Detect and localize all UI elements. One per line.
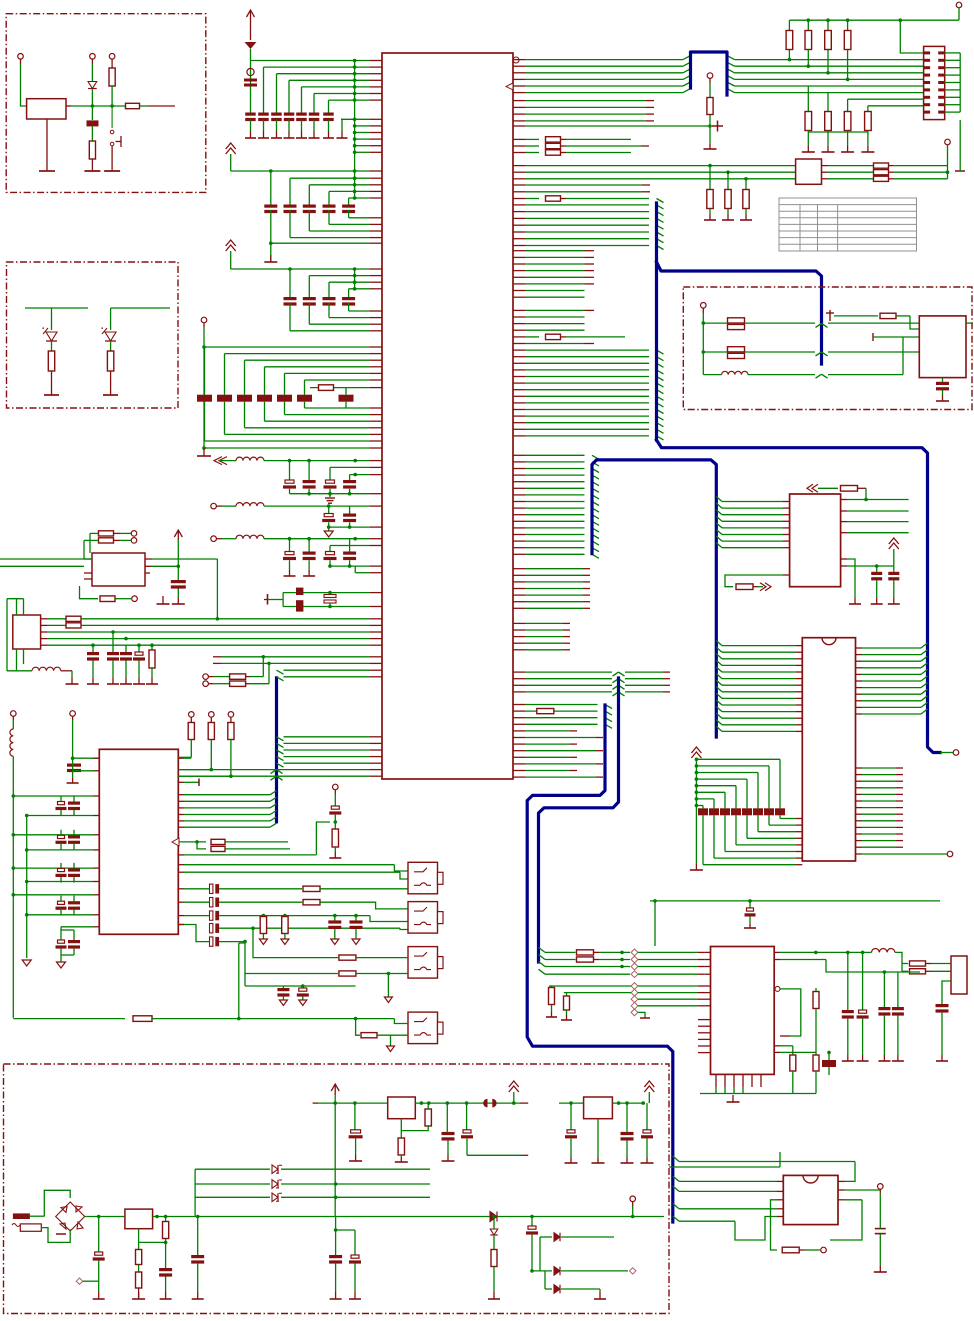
left connector J1 bbox=[13, 615, 41, 649]
box1 terminal 2 + zener bbox=[90, 54, 96, 60]
jack5 resistor wire bbox=[356, 1019, 360, 1036]
vertical feeds from audio rows bbox=[238, 943, 240, 1019]
decoupling caps row 3 bbox=[284, 297, 297, 300]
wire nest ladder2 bottom bbox=[348, 210, 350, 218]
box3 T wire 2 bbox=[872, 333, 874, 341]
power arrow and filter symbol at x=250 bbox=[247, 10, 255, 20]
shunt resistors x=263,285 bbox=[262, 916, 264, 917]
power rail y=269 bbox=[231, 268, 370, 270]
regulator U10 bbox=[559, 1102, 584, 1104]
big cap x=74 bbox=[67, 764, 81, 767]
wire nest bottom bbox=[285, 414, 371, 416]
box3 wire A with resistors bbox=[703, 322, 727, 324]
blue bus P6 bbox=[539, 678, 619, 962]
long bottom rail y=1018.6 bbox=[13, 1018, 125, 1020]
jack J4 bbox=[408, 947, 438, 979]
bundle R-L red tips bbox=[513, 622, 525, 624]
wire to connector pin1 bbox=[900, 20, 923, 53]
U3 feedback resistor top bbox=[807, 484, 818, 492]
cap left of U10 bbox=[570, 1103, 572, 1130]
box1 cap + resistor leg bbox=[91, 106, 93, 120]
blue bus P4 outer bbox=[657, 440, 941, 753]
box1 terminal 3 + resistor + switch bbox=[109, 54, 115, 60]
connector lower wire + cap bbox=[942, 981, 951, 1004]
box2 LED1 bbox=[25, 307, 88, 309]
module U2 (DC-DC) bbox=[92, 553, 145, 586]
small ground bbox=[329, 494, 331, 497]
box1 terminal 1 bbox=[18, 54, 24, 60]
blue bus P7 x=276.5 bbox=[275, 678, 278, 822]
U9 right components bbox=[415, 1102, 520, 1104]
headphone direct wires to jack1 bbox=[178, 864, 184, 866]
solid cap bottom right bbox=[822, 1060, 836, 1067]
ground bbox=[270, 255, 272, 262]
U8 right circle stub bbox=[775, 986, 780, 991]
box1 output wire bbox=[66, 105, 71, 107]
U5 audio pin wires bbox=[178, 888, 184, 890]
wire nest ladder3 top bbox=[349, 288, 370, 290]
U8 left lower stubs bbox=[698, 1019, 711, 1021]
trunk wire x=354.6 bbox=[354, 61, 356, 172]
wire group G2 bbox=[341, 118, 370, 120]
box3 IC bbox=[919, 316, 966, 378]
vertical resistor x=152 bbox=[151, 645, 153, 650]
U3 gnd bbox=[854, 572, 856, 598]
lower rails bbox=[283, 985, 355, 987]
audio wire 5 ground bbox=[219, 941, 245, 943]
U7 right wires bbox=[838, 1189, 845, 1191]
connector right wires bbox=[945, 52, 961, 54]
circle terminal above bbox=[630, 1196, 636, 1202]
cap + arrow x=178 bbox=[177, 540, 179, 580]
U8 right wires bbox=[774, 951, 780, 953]
blue bus bump P1 bbox=[691, 52, 728, 95]
IC U7 bbox=[783, 1175, 838, 1224]
row A bottom rail bbox=[289, 489, 291, 494]
codec IC U8 bbox=[711, 947, 775, 1075]
bundle R-B red tips bbox=[513, 100, 525, 102]
solid block row (bus caps) bbox=[197, 395, 212, 402]
jack J2 bbox=[408, 862, 438, 894]
U5 top cap wires bbox=[178, 757, 184, 759]
wires merging into P7 top from main IC bbox=[284, 669, 371, 671]
U8 right wire 2 bbox=[774, 959, 780, 961]
vertical coil x=13.3 bbox=[12, 720, 14, 729]
two tip wires y=185,192 bbox=[513, 184, 525, 186]
U8 left wires group1 bbox=[545, 951, 576, 953]
audio wire 1 to jack1 bbox=[219, 888, 302, 890]
wire nest ladder1 bbox=[314, 93, 370, 95]
terminal + inductor row B y=506.1 bbox=[211, 503, 217, 509]
box2 LED2 bbox=[111, 307, 170, 309]
P5 exit wires to U7 bbox=[673, 1156, 679, 1162]
connector bundle wires to main IC bbox=[41, 618, 47, 620]
wire rail y=243.2 bbox=[270, 210, 272, 262]
jack3 ground drop bbox=[387, 974, 389, 998]
bundle R-M chevron cross P6 bbox=[513, 671, 525, 673]
main IC U1 bbox=[382, 53, 513, 779]
U5 right pin wires upper bbox=[178, 756, 191, 758]
stacked resistor trio y=139-153 bbox=[513, 138, 525, 140]
terminal circles row y=713.5 bbox=[11, 711, 17, 717]
wire nest ladder3 top bbox=[329, 281, 370, 283]
wire nest bottom bbox=[245, 427, 371, 429]
bypass capacitor row C1-C7 bbox=[245, 113, 256, 116]
dashed box 1 (power input) bbox=[6, 14, 206, 193]
U6 left pin wires from P3 bbox=[716, 641, 722, 646]
cap leg x=532 bbox=[531, 1217, 533, 1227]
cap C row A3 nested bbox=[330, 466, 370, 468]
regulator U11 bbox=[125, 1209, 153, 1229]
tip wire y=343.5 bbox=[513, 343, 525, 345]
bundle R-I merge into P2 vertical bbox=[513, 349, 525, 351]
left-bottom IC U5 bbox=[99, 749, 178, 934]
terminal resistor pair x=205-245 bbox=[203, 674, 209, 680]
U4 right resistors bbox=[822, 165, 829, 167]
connector top rails bbox=[7, 598, 24, 600]
cap left of U9 bbox=[354, 1103, 356, 1130]
right connector J7 bbox=[951, 956, 967, 994]
U6 bottom right terminal wire bbox=[856, 853, 863, 855]
nested wire y=572.7 bbox=[355, 572, 370, 574]
U6 bypass bus-bar nest bbox=[691, 747, 701, 758]
wire nest ladder2 top bbox=[349, 197, 370, 199]
U10 bottom pin leg bbox=[597, 1119, 599, 1157]
top-right terminal and rail bbox=[956, 2, 962, 8]
header connector J6 bbox=[924, 46, 945, 119]
long wire y=126 with tap cluster bbox=[513, 125, 525, 127]
wires from box4 to U7 region bbox=[669, 1166, 780, 1168]
U5 left decoupling cap ladder bbox=[26, 816, 28, 959]
wire nest top bbox=[245, 359, 371, 361]
bridge rectifier bbox=[44, 1190, 70, 1216]
wire nest top bbox=[265, 366, 371, 368]
IC U6 DIP bbox=[802, 638, 855, 861]
wire x=72.6 down bbox=[72, 720, 74, 764]
resistor bottoms link bbox=[808, 131, 868, 133]
long left rail x=14 bbox=[12, 756, 14, 1018]
U8 bottom pins bbox=[715, 1074, 717, 1087]
zener wire rows bbox=[195, 1168, 270, 1170]
U7 bottom resistor loop bbox=[777, 1199, 783, 1201]
U10 right components bbox=[612, 1102, 645, 1104]
wire down to bundle bbox=[216, 559, 218, 619]
wire nest ladder2 top bbox=[309, 184, 370, 186]
wire nest ladder1 bbox=[329, 99, 371, 101]
caps on rail 986 bbox=[282, 986, 284, 988]
jack5 gnd bbox=[390, 1035, 392, 1046]
cap C row A1 bbox=[289, 461, 291, 480]
coupling cap stack x=210-219 bbox=[210, 884, 213, 893]
wire nest ladder1 bbox=[289, 79, 370, 81]
module wires bbox=[0, 558, 92, 560]
main DC wire y=1216.5 bbox=[87, 1216, 125, 1218]
row B bottom rail bbox=[328, 522, 330, 527]
row C bottom rail bbox=[329, 560, 331, 566]
wire bundle R-A to connector bbox=[513, 59, 525, 61]
pass-through wires with chevrons bbox=[179, 769, 370, 771]
ground T pair bbox=[162, 596, 164, 604]
wire nest ladder2 top bbox=[290, 177, 370, 179]
solid block 7 bbox=[339, 395, 354, 402]
trunk from rail to zener rows bbox=[334, 1103, 336, 1216]
shunt resistors x=551,566 bbox=[551, 986, 553, 988]
audio wire 2 to jack2 bbox=[219, 901, 302, 903]
blue bus P3 bbox=[592, 460, 716, 737]
cap C row A2 bbox=[308, 461, 310, 480]
jack J3 bbox=[408, 902, 438, 934]
decoupling caps row 2 bbox=[264, 205, 277, 208]
pin bubble and arrow markers bbox=[513, 57, 519, 63]
box3 output cap + ground bbox=[942, 378, 944, 382]
ground arrows bbox=[22, 960, 31, 966]
bundle R-N merge into P5 bbox=[513, 704, 525, 706]
U8 right res x=816 bbox=[815, 988, 817, 991]
dashed box 3 (video/RF) bbox=[683, 287, 972, 410]
third diode wire bbox=[544, 1271, 546, 1289]
caps pair 2 bbox=[883, 972, 885, 1007]
box3 terminal bbox=[701, 303, 707, 309]
wire R-H with resistor bbox=[513, 336, 525, 338]
cap at U7 right bbox=[875, 1228, 886, 1230]
U11 bottom divider bbox=[138, 1229, 140, 1243]
cap x=165 lower bbox=[165, 1242, 167, 1268]
power rail y=171 bbox=[231, 170, 370, 172]
box1 module ground bbox=[46, 119, 48, 171]
long vertical wire x=204 bbox=[203, 327, 205, 448]
blue bus P2 bbox=[655, 203, 658, 440]
wire nest ladder3 top bbox=[309, 275, 370, 277]
jack J5 bbox=[408, 1012, 438, 1044]
dashed box 2 (LEDs) bbox=[7, 262, 179, 408]
cap pairs rows bbox=[58, 802, 65, 805]
U3 right wires bbox=[841, 499, 847, 501]
AC inlet bbox=[13, 1213, 30, 1219]
U6 right short stub wires bbox=[856, 767, 863, 769]
polarity pad on rail bbox=[483, 1099, 487, 1108]
wire top rail bbox=[251, 60, 371, 62]
crystal cluster y=592-607 bbox=[267, 594, 269, 605]
U3 left pin wires from P3 bus bbox=[716, 497, 722, 502]
resistor columns with terminals x=191,211,231 bbox=[189, 712, 195, 718]
wire nest ladder2 top bbox=[329, 190, 370, 192]
bundle R-J merge into P3 bbox=[513, 454, 525, 456]
diamond stub bbox=[631, 1009, 638, 1016]
tip wires with resistor taps y=657,663 bbox=[213, 656, 221, 658]
U8 left wires group2 bbox=[631, 983, 638, 990]
T end x=960 bbox=[959, 120, 961, 168]
VCC arrow at (230,242) bbox=[226, 240, 236, 251]
caps row B bbox=[328, 506, 330, 513]
ground arrow bbox=[328, 527, 330, 531]
wire nest bottom bbox=[205, 440, 371, 442]
wire nest top bbox=[305, 379, 371, 381]
audio wire 4 to jack2 bbox=[219, 927, 400, 929]
sub wires bottom right bbox=[540, 1236, 552, 1238]
wire nest ladder1 bbox=[277, 73, 371, 75]
box3 right vert wire bbox=[966, 322, 973, 324]
bundle R-E mixed tips bbox=[513, 250, 525, 252]
U3 right caps + power arrow bbox=[841, 558, 847, 560]
resistor pair with terminals x=99-113 bbox=[99, 531, 114, 536]
wire y=854.9 with cap/res column x=335 bbox=[178, 854, 184, 856]
bottom right cluster diodes bbox=[490, 1212, 497, 1222]
VCC arrow right bbox=[644, 1081, 654, 1092]
wire nest top bbox=[285, 372, 371, 374]
P7 bottom exit wires to U5 bbox=[270, 791, 277, 795]
U6 right pin wires to P4 bus bbox=[856, 647, 863, 649]
wire rail y=330.8 bbox=[289, 303, 291, 331]
jack3 feed wires bbox=[251, 926, 255, 930]
caps right of codec bbox=[847, 952, 849, 1010]
zener leg x=494 bbox=[493, 1217, 495, 1230]
ground T at (204,448) bbox=[202, 446, 206, 450]
VCC arrow at (230,145) bbox=[226, 143, 236, 154]
box3 wire B with resistors bbox=[703, 351, 727, 353]
input cap x=98.7 bbox=[98, 1217, 100, 1253]
box3 wire C with coil bbox=[703, 374, 721, 376]
outline cap x=330 bbox=[324, 595, 336, 598]
resistor wire y=198.5 merge bbox=[513, 198, 525, 200]
wire nest ladder1 bbox=[302, 86, 371, 88]
row C grounds bbox=[289, 560, 291, 570]
diamond stub bbox=[76, 1278, 82, 1284]
terminal x=947.5 bbox=[947, 145, 949, 179]
arrow-left + inductor row A y=460.6 bbox=[214, 457, 227, 465]
box3 T + resistor wire upper bbox=[829, 310, 831, 321]
shunt caps x=334,356 bbox=[334, 916, 336, 921]
box1 oscillator module bbox=[27, 99, 66, 119]
IC U3 (latch) bbox=[790, 494, 841, 587]
bottom cap pair bbox=[61, 926, 93, 928]
wire nest bottom bbox=[225, 433, 371, 435]
wire nest top bbox=[225, 353, 371, 355]
bundle R-D merge into P2 bbox=[513, 204, 525, 206]
regulator U9 bbox=[313, 1102, 318, 1104]
arrow pin y=842 bbox=[172, 838, 179, 846]
inductor at connector bottom bbox=[16, 649, 18, 671]
wire nest ladder3 bottom bbox=[348, 303, 350, 311]
cap above codec bbox=[650, 900, 940, 902]
wire nest ladder1 bbox=[264, 66, 371, 68]
blue bus P5 bbox=[527, 705, 673, 1222]
VCC arrow mid bbox=[509, 1081, 519, 1092]
trunk x=354.6 mid bbox=[354, 171, 356, 198]
caps below bundle bbox=[92, 645, 94, 652]
terminal + inductor row C y=538.7 bbox=[211, 536, 217, 542]
terminal at (204,320) bbox=[201, 317, 207, 323]
caps x=335,355 bottom bbox=[335, 1217, 337, 1256]
bundle R-K red tips bbox=[513, 568, 525, 570]
crystal plates bbox=[296, 588, 303, 595]
bundle R-O red tips bbox=[513, 730, 525, 732]
resistor pair to connector bbox=[902, 963, 908, 965]
U3 lower loop resistor bbox=[783, 574, 790, 576]
audio wire 3 to jack2 bbox=[219, 915, 370, 917]
three long wires to U4 block bbox=[513, 165, 525, 167]
block U4 bbox=[796, 159, 822, 184]
module bottom resistor to terminal bbox=[80, 586, 99, 599]
cap C row A4 nested bbox=[350, 474, 370, 476]
caps row C bbox=[289, 539, 291, 552]
wire to red tip y=1155 bbox=[467, 1154, 521, 1156]
resistor on wire y=387.6 bbox=[310, 387, 370, 389]
U11 adj resistor bbox=[165, 1217, 167, 1223]
wire nest bottom bbox=[265, 420, 371, 422]
P6 exit wires to codec bbox=[539, 947, 546, 952]
dashed box 4 (power supply) bbox=[4, 1064, 670, 1314]
wires main IC to P7 bbox=[284, 736, 371, 738]
wire nest bottom bbox=[305, 407, 371, 409]
signal table bbox=[779, 198, 917, 251]
cap x=197.7 bbox=[197, 1217, 199, 1256]
pull-up resistors top right bbox=[788, 20, 790, 31]
pull-down resistor quartet bbox=[807, 86, 809, 112]
U8 bottom right resistors bbox=[774, 1045, 780, 1047]
T stub bbox=[178, 781, 184, 783]
